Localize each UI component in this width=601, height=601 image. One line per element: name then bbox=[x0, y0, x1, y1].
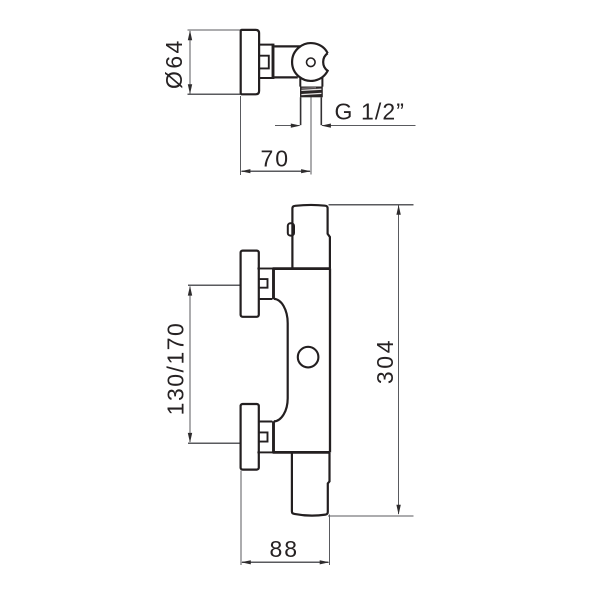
dim G 1/2 dimension line right part bbox=[322, 125, 415, 127]
top control knob bbox=[292, 205, 330, 269]
svg-text:304: 304 bbox=[372, 338, 398, 384]
dim 304 arrow up bbox=[396, 205, 400, 215]
thread stripe 2 bbox=[301, 93, 321, 94]
body left profile curve bbox=[274, 299, 288, 422]
lower wall flange bbox=[241, 404, 259, 470]
thread stripe 1 bbox=[301, 89, 321, 90]
neck to valve body bbox=[274, 46, 301, 77]
dim 304 extension top bbox=[329, 204, 414, 206]
dim G 1/2 arrow right-pointing bbox=[291, 124, 301, 128]
dim 88 extension right bbox=[328, 515, 330, 565]
dim 70 arrow left bbox=[241, 169, 251, 173]
safety button on knob left bbox=[288, 223, 294, 235]
upper nut step bbox=[259, 279, 268, 288]
dim Ø64 arrow up bbox=[188, 30, 192, 40]
svg-text:Ø64: Ø64 bbox=[161, 38, 187, 89]
upper wall flange bbox=[241, 251, 259, 317]
body bottom horizontal line bbox=[257, 451, 273, 453]
dim 70 dimension line bbox=[241, 170, 310, 172]
outlet pipe walls bbox=[301, 97, 322, 125]
svg-text:130/170: 130/170 bbox=[163, 322, 189, 416]
dim 130/170 dimension line bbox=[189, 286, 191, 442]
dim 88 extension left bbox=[240, 471, 242, 565]
dim 304 extension bottom bbox=[328, 515, 413, 517]
temperature dial circle bbox=[298, 347, 319, 368]
stem step between flange and nut bbox=[259, 56, 268, 69]
dim Ø64 dimension line bbox=[189, 31, 191, 93]
thread stripe top faint bbox=[302, 87, 316, 90]
outlet thread block bbox=[300, 87, 323, 98]
upper nut bottom bbox=[259, 298, 273, 300]
dim G 1/2 arrow left-pointing bbox=[321, 124, 331, 128]
lower nut step bbox=[259, 432, 268, 441]
dim 88 arrow right bbox=[320, 560, 330, 564]
dim Ø64 extension line top bbox=[188, 29, 241, 31]
dim Ø64 arrow down bbox=[188, 84, 192, 94]
body top horizontal line bbox=[257, 268, 273, 270]
dim 130/170 extension top bbox=[188, 284, 240, 286]
outlet neck below body bbox=[300, 78, 322, 87]
dim 70 arrow right bbox=[301, 169, 311, 173]
body right edge bbox=[329, 269, 331, 453]
dim 130/170 arrow down bbox=[188, 433, 192, 443]
svg-text:88: 88 bbox=[270, 536, 300, 562]
dim 88 arrow left bbox=[241, 560, 251, 564]
wall flange disc (side view) bbox=[241, 30, 259, 94]
dim 304 dimension line bbox=[398, 206, 400, 514]
svg-text:G 1/2”: G 1/2” bbox=[335, 99, 406, 125]
svg-text:70: 70 bbox=[261, 146, 291, 172]
dim G 1/2 dimension line left part bbox=[275, 125, 299, 127]
dim 88 dimension line bbox=[242, 561, 329, 563]
dim Ø64 extension line bottom bbox=[188, 93, 241, 95]
lower nut top bbox=[259, 421, 273, 423]
valve body circle with right notch bbox=[292, 43, 328, 81]
dim 130/170 arrow up bbox=[188, 286, 192, 296]
centerline of outlet pipe bbox=[310, 96, 312, 175]
valve center screw bbox=[307, 58, 316, 67]
nut joint thick vertical lower bbox=[272, 421, 275, 452]
dim 70 extension line (wall face) bbox=[240, 96, 242, 175]
bottom knob bbox=[292, 453, 330, 516]
nut joint thick vertical bbox=[272, 44, 275, 79]
nut joint thick vertical upper bbox=[272, 269, 275, 300]
dim 304 arrow down bbox=[396, 505, 400, 515]
dim 130/170 extension bottom bbox=[188, 442, 240, 444]
connection nut top/bottom bbox=[259, 45, 272, 78]
